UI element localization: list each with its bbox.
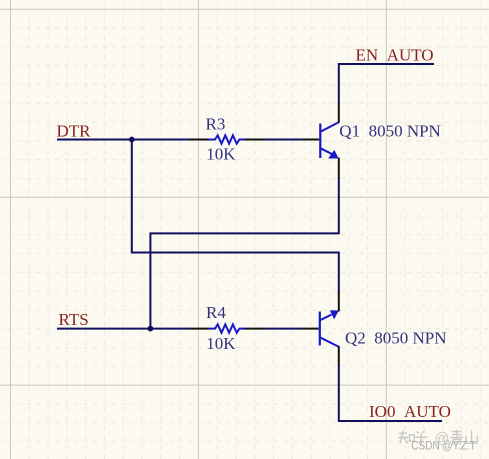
svg-text:Q2 8050 NPN: Q2 8050 NPN bbox=[345, 329, 447, 348]
transistor Q1 bbox=[302, 103, 339, 179]
resistor R4 bbox=[190, 324, 265, 332]
svg-text:IO0 AUTO: IO0 AUTO bbox=[369, 402, 451, 421]
resistor R3 bbox=[190, 135, 265, 143]
wire bbox=[264, 139, 303, 141]
wire bbox=[264, 328, 303, 330]
svg-text:RTS: RTS bbox=[59, 310, 89, 329]
transistor Q2 bbox=[302, 292, 339, 366]
wire bbox=[57, 139, 190, 141]
svg-text:CSDN @Y.Z.T: CSDN @Y.Z.T bbox=[411, 440, 476, 452]
svg-text:R4: R4 bbox=[206, 303, 226, 322]
svg-text:R3: R3 bbox=[206, 115, 226, 134]
node RTS junction bbox=[148, 326, 154, 332]
svg-text:10K: 10K bbox=[206, 334, 236, 353]
svg-text:10K: 10K bbox=[206, 144, 236, 163]
wire bbox=[339, 366, 442, 422]
svg-text:DTR: DTR bbox=[57, 122, 92, 141]
wire bbox=[132, 140, 339, 293]
wire bbox=[150, 178, 338, 329]
node DTR junction bbox=[129, 137, 135, 143]
wire bbox=[57, 328, 190, 330]
svg-text:Q1 8050 NPN: Q1 8050 NPN bbox=[339, 122, 441, 141]
svg-text:EN AUTO: EN AUTO bbox=[356, 45, 434, 64]
wire bbox=[339, 64, 434, 103]
